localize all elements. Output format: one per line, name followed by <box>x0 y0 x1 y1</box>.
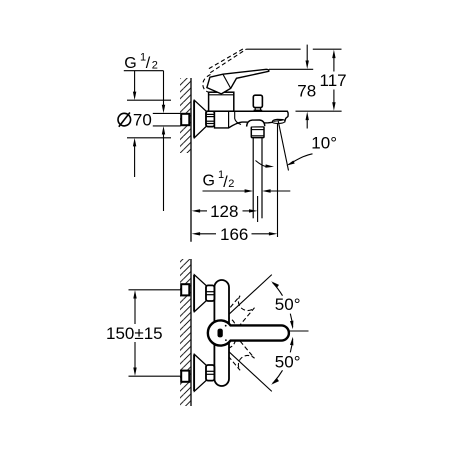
svg-text:2: 2 <box>152 60 158 72</box>
G1/2 lower dim line with arrows <box>203 190 247 192</box>
diverter knob <box>253 95 262 107</box>
svg-text:/: / <box>146 55 151 72</box>
lever handle (side view) <box>207 69 269 94</box>
G1/2 ext lines <box>153 112 181 114</box>
10deg right leader with arrow <box>289 154 313 165</box>
supply square (upper, plan) <box>181 284 189 295</box>
dashed lever position -50deg <box>219 334 254 371</box>
connection nut (lower, plan) <box>206 365 214 381</box>
svg-text:G: G <box>203 173 215 190</box>
dim 128 <box>192 209 201 212</box>
connection nut (top view) <box>206 111 215 127</box>
faucet body and spout outline <box>215 111 289 128</box>
ext line from raised lever tip <box>246 48 300 50</box>
connection nut (upper, plan) <box>206 285 214 301</box>
escutcheon cone (lower, plan) <box>194 354 206 391</box>
wall line (top view) <box>190 78 192 242</box>
lever tip ref line <box>289 330 309 332</box>
50deg arc lower <box>273 370 283 383</box>
lever handle (plan view) <box>208 320 289 345</box>
shower hose pipe <box>252 138 254 219</box>
escutcheon cone (upper, plan) <box>194 275 206 312</box>
svg-text:70: 70 <box>133 111 152 130</box>
50deg arc upper <box>273 283 283 296</box>
svg-text:2: 2 <box>228 178 234 190</box>
G1/2 dim line lower <box>162 126 165 135</box>
G1/2 dim line upper <box>163 71 165 106</box>
escutcheon plate line (lower, plan) <box>193 354 195 391</box>
svg-text:117: 117 <box>320 71 347 90</box>
pipe centerline <box>257 196 259 222</box>
wall line (bottom view) <box>190 259 192 406</box>
svg-text:10°: 10° <box>311 134 337 153</box>
svg-text:50°: 50° <box>275 295 301 314</box>
svg-text:78: 78 <box>297 82 316 101</box>
spout top line <box>206 110 287 112</box>
50deg reference line upper <box>224 275 272 320</box>
svg-text:150±15: 150±15 <box>106 324 163 343</box>
dim 150+-15 <box>133 290 136 299</box>
svg-text:G: G <box>124 55 136 72</box>
vertical reference line (166 ext) <box>277 124 279 238</box>
shower outlet dome <box>247 120 265 127</box>
dashed lever position +50deg <box>219 296 254 333</box>
wall hatching (bottom view) <box>180 259 191 406</box>
dim 117 <box>332 50 335 59</box>
dim 166 <box>192 232 201 235</box>
supply square (lower, plan) <box>181 371 189 382</box>
dashed raised-lever outline <box>203 49 247 93</box>
body seam lines <box>228 111 230 128</box>
label diameter 70 <box>118 113 131 126</box>
dia70 ext lines <box>127 99 171 101</box>
50deg reference line lower <box>224 347 272 392</box>
shower outlet fitting <box>251 127 264 138</box>
ext line spout top right <box>296 110 342 112</box>
wall hatching (top view) <box>180 78 191 153</box>
dim 150+-15 ext lines <box>129 289 182 291</box>
escutcheon cone (top view) <box>194 100 206 137</box>
G1/2 label underline <box>124 70 164 72</box>
svg-text:166: 166 <box>220 225 248 244</box>
svg-text:50°: 50° <box>275 352 301 371</box>
10deg slant stream line <box>278 121 288 171</box>
dim 78 <box>306 45 308 62</box>
cartridge housing <box>209 92 234 111</box>
svg-text:128: 128 <box>210 202 238 221</box>
handle indicator mark <box>218 329 223 338</box>
escutcheon plate line (top view) <box>193 100 195 137</box>
faucet body capsule (plan view) <box>214 280 229 386</box>
10deg left arc with arrow <box>256 161 267 167</box>
lever tip ext line <box>269 68 313 70</box>
dia70 dim arrows <box>134 71 136 93</box>
escutcheon plate line (upper, plan) <box>193 275 195 312</box>
supply elbow square (top view) <box>181 114 189 125</box>
aerator lip <box>272 119 285 123</box>
